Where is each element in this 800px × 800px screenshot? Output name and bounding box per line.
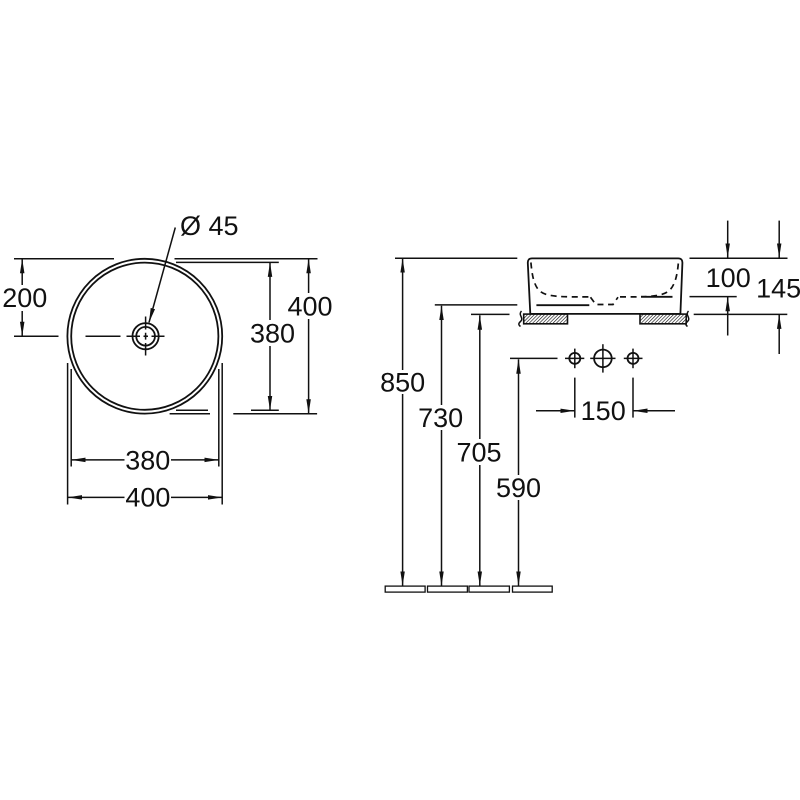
break squiggle right — [686, 311, 689, 327]
interior waterline solid right — [641, 296, 673, 298]
counter line right extension — [694, 313, 788, 315]
drain vertical centerline — [145, 317, 147, 356]
horizontal centerline through basin — [14, 335, 165, 337]
top extension line right of basin — [690, 257, 788, 259]
top tangent extension line (outer) — [14, 258, 318, 260]
dimension 730 — [441, 306, 443, 405]
dimension 400 bottom horizontal — [68, 496, 125, 498]
dimension 145 upper arrow — [778, 221, 780, 258]
150 extension line left — [574, 378, 576, 418]
tap hole small left vertical centerline — [574, 349, 576, 369]
interior bottom solid line left — [536, 304, 589, 306]
basin side outline — [528, 258, 683, 314]
svg-text:730: 730 — [418, 403, 463, 433]
floor line segment 3 — [469, 586, 509, 592]
dashed bowl curve left — [531, 263, 589, 297]
top extension line left of basin — [395, 257, 517, 259]
svg-text:200: 200 — [2, 283, 47, 313]
drain inner circle — [136, 327, 155, 346]
tap hole small right — [628, 353, 639, 364]
dashed bowl curve right — [641, 264, 678, 297]
dimension 100 lower arrow — [727, 297, 729, 336]
dimension 590 — [518, 359, 520, 475]
basin inner rim circle — [71, 263, 218, 410]
dimension 100 upper arrow — [727, 221, 729, 258]
dimension 145 lower arrow — [778, 314, 780, 354]
left extension line 380 — [70, 369, 72, 467]
tap hole small left — [569, 353, 580, 364]
svg-text:380: 380 — [250, 318, 295, 348]
dimension 200 vertical line with arrows — [21, 259, 23, 285]
svg-text:145: 145 — [756, 274, 800, 304]
100 level extension line — [690, 296, 737, 298]
svg-text:400: 400 — [125, 483, 170, 513]
tap hole centerline — [510, 357, 643, 359]
left extension line 400 — [67, 363, 69, 505]
floor line segment 4 — [513, 586, 553, 592]
bottom tangent extension (inner) — [176, 409, 279, 411]
svg-text:705: 705 — [456, 437, 501, 467]
drain center dot — [144, 335, 146, 337]
top tangent extension line (inner) — [176, 261, 279, 263]
dimension 150 arrows — [536, 410, 575, 412]
tap hole center (faucet) — [594, 350, 612, 368]
basin outer circle — [67, 259, 222, 414]
svg-text:Ø 45: Ø 45 — [180, 211, 239, 241]
dimension 380 bottom horizontal — [71, 459, 124, 461]
150 extension line right — [632, 378, 634, 418]
dashed bowl mid right segment — [620, 296, 641, 298]
svg-text:380: 380 — [125, 446, 170, 476]
counter line left extension — [471, 313, 510, 315]
hatched mounting pad left — [524, 314, 568, 324]
bottom tangent extension (outer) — [170, 413, 318, 415]
basin bottom line — [530, 313, 680, 315]
730 level extension line — [435, 304, 518, 306]
floor line segment 2 — [428, 586, 468, 592]
dimension 850 — [402, 258, 404, 370]
hatched mounting pad right — [640, 314, 686, 324]
leader line for drain diameter — [149, 228, 175, 323]
dimension 400 right vertical — [308, 259, 310, 293]
floor line segment 1 — [385, 586, 425, 592]
tap hole center vertical centerline — [602, 344, 604, 372]
right extension line 400 — [221, 363, 223, 505]
dimension 705 — [479, 315, 481, 439]
right extension line 380 — [218, 369, 220, 467]
svg-text:100: 100 — [706, 263, 751, 293]
svg-text:850: 850 — [380, 367, 425, 397]
svg-text:400: 400 — [287, 291, 332, 321]
dashed drain recess — [591, 297, 619, 304]
svg-text:150: 150 — [581, 396, 626, 426]
svg-text:590: 590 — [496, 473, 541, 503]
break squiggle left — [519, 311, 522, 327]
tap hole small right vertical centerline — [632, 349, 634, 369]
drain outer circle — [133, 323, 159, 349]
dimension 380 right vertical — [269, 262, 271, 320]
